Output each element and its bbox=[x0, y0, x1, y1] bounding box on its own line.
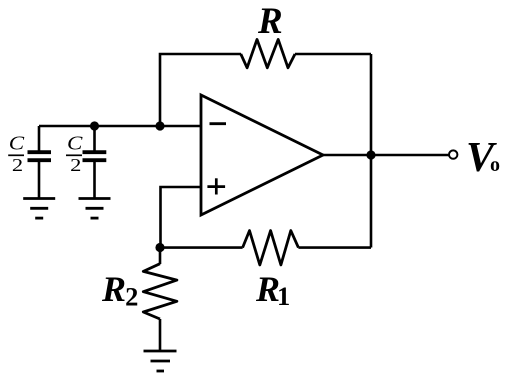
label R1 bbox=[255, 269, 290, 311]
capacitor C/2 (right) bbox=[83, 126, 107, 198]
label Vo bbox=[466, 135, 500, 181]
label C/2 (left) bbox=[8, 132, 25, 175]
svg-text:2: 2 bbox=[12, 156, 23, 175]
svg-text:o: o bbox=[490, 154, 500, 176]
ground (below R2) bbox=[144, 351, 177, 371]
label R2 bbox=[101, 269, 138, 311]
svg-text:C: C bbox=[9, 132, 25, 154]
wire (node to resistor R1) bbox=[160, 246, 243, 249]
svg-text:2: 2 bbox=[125, 281, 138, 311]
svg-text:2: 2 bbox=[70, 156, 81, 175]
terminal Vo (open circle) bbox=[449, 150, 457, 158]
node (left capacitor junction) bbox=[90, 121, 99, 130]
node (output junction) bbox=[366, 150, 375, 159]
resistor R2 bbox=[143, 248, 177, 352]
wire (feedback top-left: up from inverting node, across to resistor R) bbox=[160, 54, 241, 126]
node (R1/R2 junction at non-inverting path) bbox=[155, 243, 164, 252]
svg-text:R: R bbox=[101, 269, 126, 309]
wire (resistor R1 to right vertical) bbox=[298, 246, 371, 249]
op-amp non-inverting input symbol (plus) bbox=[207, 178, 225, 194]
node (inverting input junction) bbox=[155, 121, 164, 130]
ground (left capacitor) bbox=[23, 199, 55, 219]
capacitor C/2 (left) bbox=[28, 126, 52, 198]
resistor R bbox=[241, 39, 295, 67]
wire (op-amp output to terminal) bbox=[323, 154, 449, 157]
wire (right vertical from top wire down to R1 wire) bbox=[370, 54, 373, 248]
wire (top-right: resistor R to right vertical) bbox=[295, 53, 371, 56]
ground (right capacitor) bbox=[79, 199, 111, 219]
label C/2 (right) bbox=[66, 132, 83, 175]
svg-text:1: 1 bbox=[277, 281, 290, 311]
wire (non-inverting input, left and down to R1/R2 node) bbox=[161, 187, 202, 248]
resistor R1 bbox=[243, 231, 299, 265]
svg-text:C: C bbox=[67, 132, 83, 154]
op-amp U1 bbox=[201, 95, 323, 215]
op-amp inverting input symbol (minus) bbox=[210, 122, 227, 125]
wire (inverting input line) bbox=[39, 125, 201, 128]
svg-text:R: R bbox=[257, 1, 283, 42]
